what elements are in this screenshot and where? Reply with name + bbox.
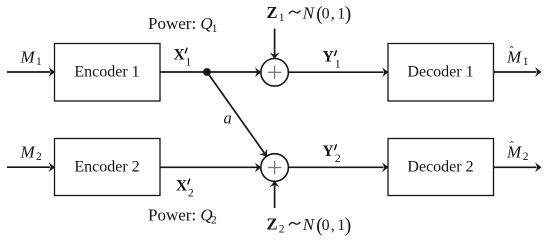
wire adder 2 to Decoder 2	[288, 162, 388, 172]
node junction dot	[203, 68, 211, 76]
label Power: Q1	[148, 14, 218, 35]
svg-text:Decoder 1: Decoder 1	[407, 64, 473, 81]
wire M2 input arrow	[7, 162, 55, 172]
svg-text:Z: Z	[267, 3, 278, 22]
svg-text:X: X	[174, 47, 186, 64]
label Y'1	[323, 49, 341, 71]
label X'2	[176, 178, 194, 200]
label Power: Q2	[148, 206, 217, 227]
svg-text:1: 1	[335, 56, 341, 70]
svg-text:N: N	[302, 3, 316, 22]
wire M1 input arrow	[7, 67, 55, 77]
svg-text:): )	[345, 4, 352, 25]
wire adder 1 to Decoder 1	[288, 67, 388, 77]
svg-text:,: ,	[331, 217, 335, 234]
wire Decoder 1 output arrow	[494, 67, 542, 77]
wire Decoder 2 output arrow	[494, 162, 542, 172]
svg-text:2: 2	[211, 215, 217, 227]
svg-text:Encoder 1: Encoder 1	[74, 64, 139, 81]
svg-text:1: 1	[212, 23, 218, 35]
svg-text:Y: Y	[323, 49, 334, 66]
label M-hat 1	[506, 44, 529, 69]
box Decoder 2	[388, 139, 494, 196]
svg-text:X: X	[176, 178, 188, 195]
wire a-gain diagonal from node to adder 2	[207, 72, 271, 159]
wire Z1 noise arrow down into adder 1	[270, 29, 280, 60]
wire Z2 noise arrow up into adder 2	[270, 181, 280, 208]
wire Encoder 2 to adder 2	[160, 162, 261, 172]
svg-text:M: M	[506, 143, 522, 162]
svg-text:1: 1	[279, 12, 285, 24]
svg-text:M: M	[20, 143, 36, 162]
label Z2 ~ N(0,1)	[267, 215, 352, 237]
svg-text:Z: Z	[267, 215, 278, 234]
label M2	[20, 143, 43, 164]
svg-text:1: 1	[36, 56, 42, 68]
svg-text:M: M	[20, 48, 36, 67]
svg-text:Encoder 2: Encoder 2	[74, 159, 139, 176]
svg-text:0: 0	[322, 5, 330, 22]
svg-text:0: 0	[322, 217, 330, 234]
svg-text:1: 1	[523, 56, 529, 68]
svg-text:N: N	[302, 215, 316, 234]
svg-text:): )	[345, 216, 352, 237]
svg-text:Power: Q: Power: Q	[148, 206, 213, 225]
adder U1 (plus circle)	[261, 59, 289, 87]
box Encoder 2	[55, 139, 161, 196]
svg-text:,: ,	[331, 5, 335, 22]
svg-text:Decoder 2: Decoder 2	[407, 159, 473, 176]
label M-hat 2	[506, 139, 529, 164]
adder U2 (plus circle)	[261, 154, 289, 182]
svg-text:a: a	[224, 108, 232, 127]
box Decoder 1	[388, 44, 494, 102]
svg-text:M: M	[506, 48, 522, 67]
label X'1	[174, 47, 192, 69]
svg-text:2: 2	[188, 188, 194, 200]
svg-text:1: 1	[186, 57, 192, 69]
svg-text:Y: Y	[323, 143, 334, 160]
label M1	[20, 48, 43, 69]
svg-text:2: 2	[36, 151, 42, 163]
svg-text:Power: Q: Power: Q	[148, 14, 213, 33]
wire Encoder 1 output to node	[160, 71, 207, 73]
svg-text:2: 2	[279, 223, 285, 235]
wire node to adder 1	[207, 67, 261, 77]
box Encoder 1	[55, 44, 161, 102]
label Y'2	[323, 143, 341, 165]
label Z1 ~ N(0,1)	[267, 3, 352, 25]
svg-text:2: 2	[335, 151, 341, 165]
svg-text:2: 2	[523, 151, 529, 163]
